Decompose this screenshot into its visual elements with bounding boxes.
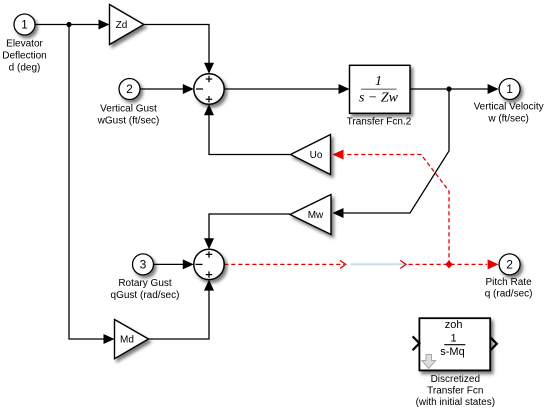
svg-text:d (deg): d (deg) <box>9 63 41 74</box>
svg-text:Rotary Gust: Rotary Gust <box>118 278 172 289</box>
gain Zd <box>110 5 144 45</box>
output chevron of discretized block <box>490 337 496 350</box>
red dashed branch to gain Uo <box>333 150 450 265</box>
wire inport2 to sum1 left <box>140 84 194 94</box>
sum block Sum2 <box>194 249 224 279</box>
wire gain Mw to sum2 top <box>204 214 290 249</box>
wire gain Zd to sum1 top <box>144 25 215 74</box>
svg-text:Elevator: Elevator <box>6 39 43 50</box>
gain Mw <box>290 195 331 235</box>
svg-text:Vertical Velocity: Vertical Velocity <box>474 102 544 113</box>
svg-text:Pitch Rate: Pitch Rate <box>486 277 533 288</box>
wire junction down to gain Md <box>69 25 115 345</box>
svg-text:Deflection: Deflection <box>2 51 46 62</box>
junction dot at node after inport1 <box>66 22 71 27</box>
wire sum1 to Transfer Fcn.2 <box>224 84 349 94</box>
wire gain Md to sum2 bottom <box>149 280 215 339</box>
gain Md <box>115 320 149 359</box>
discretized transfer fcn block <box>416 318 495 408</box>
svg-text:(with initial states): (with initial states) <box>416 397 495 408</box>
outport 2 Pitch Rate <box>485 254 533 300</box>
inport 2 Vertical Gust <box>97 79 160 127</box>
gain Uo <box>291 135 331 175</box>
svg-text:Transfer Fcn.2: Transfer Fcn.2 <box>347 117 412 128</box>
svg-text:w (ft/sec): w (ft/sec) <box>487 114 529 125</box>
svg-text:Transfer Fcn: Transfer Fcn <box>427 385 483 396</box>
svg-text:qGust (rad/sec): qGust (rad/sec) <box>111 290 180 301</box>
svg-text:2: 2 <box>126 82 133 96</box>
svg-text:s − Zw: s − Zw <box>359 91 399 106</box>
svg-text:Uo: Uo <box>310 150 323 161</box>
svg-text:s-Mq: s-Mq <box>440 346 464 358</box>
svg-text:Zd: Zd <box>116 20 128 31</box>
red chevron 2 on dashed wire <box>400 260 406 268</box>
inport 1 Elevator Deflection <box>2 14 46 74</box>
wire Transfer Fcn.2 to outport1 <box>410 84 499 94</box>
red dashed wire sum2 to outport2 <box>224 259 498 269</box>
wire junction down crossing to gain Mw <box>333 89 450 218</box>
svg-text:1: 1 <box>375 74 382 89</box>
svg-text:1: 1 <box>506 82 513 96</box>
inport 3 Rotary Gust <box>111 254 180 301</box>
svg-text:Discretized: Discretized <box>431 374 480 385</box>
wire inport1 to gain Zd <box>35 20 110 30</box>
red chevron 1 on dashed wire <box>340 260 346 268</box>
svg-text:1: 1 <box>21 18 28 32</box>
svg-text:Mw: Mw <box>308 210 324 221</box>
wire inport3 to sum2 left <box>154 259 194 269</box>
junction dot on output of Transfer Fcn.2 <box>446 86 451 91</box>
wire gain Uo to sum1 bottom <box>204 104 291 154</box>
svg-text:3: 3 <box>140 258 147 272</box>
highlighted blue signal segment <box>351 263 406 265</box>
gray download arrow icon inside discretized block <box>422 355 436 369</box>
svg-text:q (rad/sec): q (rad/sec) <box>485 289 533 300</box>
svg-text:zoh: zoh <box>445 319 463 331</box>
svg-text:1: 1 <box>451 333 457 345</box>
svg-text:wGust (ft/sec): wGust (ft/sec) <box>97 116 160 127</box>
red diamond junction <box>445 260 453 268</box>
svg-text:Md: Md <box>120 335 134 346</box>
sum block Sum1 <box>194 74 224 104</box>
transfer function block Transfer Fcn.2 <box>347 65 412 127</box>
input chevron of discretized block <box>413 336 420 350</box>
svg-text:2: 2 <box>506 258 513 272</box>
outport 1 Vertical Velocity <box>474 79 544 125</box>
svg-text:Vertical Gust: Vertical Gust <box>100 104 157 115</box>
